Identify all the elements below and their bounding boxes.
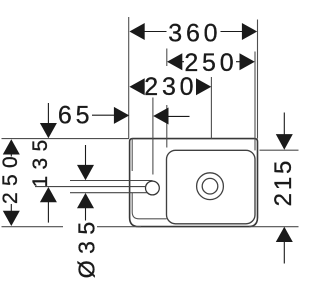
dim 360 arrow right [242,23,257,40]
dim 65 arrow pointing right [114,107,129,124]
extension line bottom left a [2,226,64,228]
dim 135 top tail [47,103,49,129]
dim 250 left line top [10,150,12,157]
svg-text:65: 65 [58,101,93,129]
dim 65 arrow pointing left [153,108,168,125]
dim d35 bottom tail [85,206,87,221]
tap hole center line [35,186,146,188]
dim 250 line left [180,61,184,63]
dim d35 arrow down [77,165,94,180]
svg-text:135: 135 [29,134,52,188]
dim 215 top tail [283,113,285,137]
basin outer outline [130,139,258,227]
dim 215 arrow down [276,134,293,150]
dim 135 arrow down [40,123,57,138]
extension line bowl right up [254,52,256,151]
dim 250 left arrow up [3,139,20,154]
svg-text:215: 215 [270,158,297,206]
extension line bowl top right [260,149,299,151]
extension line hole center up [152,98,154,175]
dim 135 bottom tail [47,197,49,223]
svg-text:250: 250 [0,150,22,204]
extension line bowl left up segment a [166,49,168,67]
dim d35 top tail [85,145,87,167]
tap hole circle [146,181,160,195]
extension line right edge up [257,20,259,139]
drain inner circle [202,178,218,194]
extension line 230 right [210,77,212,139]
extension line left edge up [128,17,130,139]
dim 360 line left [142,31,167,33]
svg-text:Ø35: Ø35 [74,215,100,278]
tap hole top line [70,180,153,182]
dim 250 arrow right [240,53,255,70]
dim 215 bottom tail [283,240,285,264]
dim d35 arrow up [77,193,94,208]
dim 65 tail right [165,115,190,117]
bowl [167,150,256,224]
dim 135 arrow up [40,187,57,202]
extension line bottom right [249,226,299,228]
dim 360 line right [221,31,244,33]
extension line bottom left b [97,226,141,228]
dim 230 arrow left [129,78,144,95]
dim 250 left line bottom [10,204,12,216]
extension line bowl left up segment b [166,105,168,148]
dim 250 arrow left [167,53,182,70]
svg-text:360: 360 [168,20,221,48]
dim 250 line right [236,61,243,63]
dim 360 arrow left [129,23,144,40]
extension line top left [2,138,130,140]
basin inner left rim line [131,139,133,171]
dim 250 left arrow down [3,211,20,226]
drain outer circle [197,173,224,200]
dim 230 arrow right [196,78,211,95]
dim 65 line left [92,114,118,116]
tap hole bottom line [70,192,147,194]
svg-text:230: 230 [144,73,197,101]
dim 215 arrow up [276,227,293,242]
